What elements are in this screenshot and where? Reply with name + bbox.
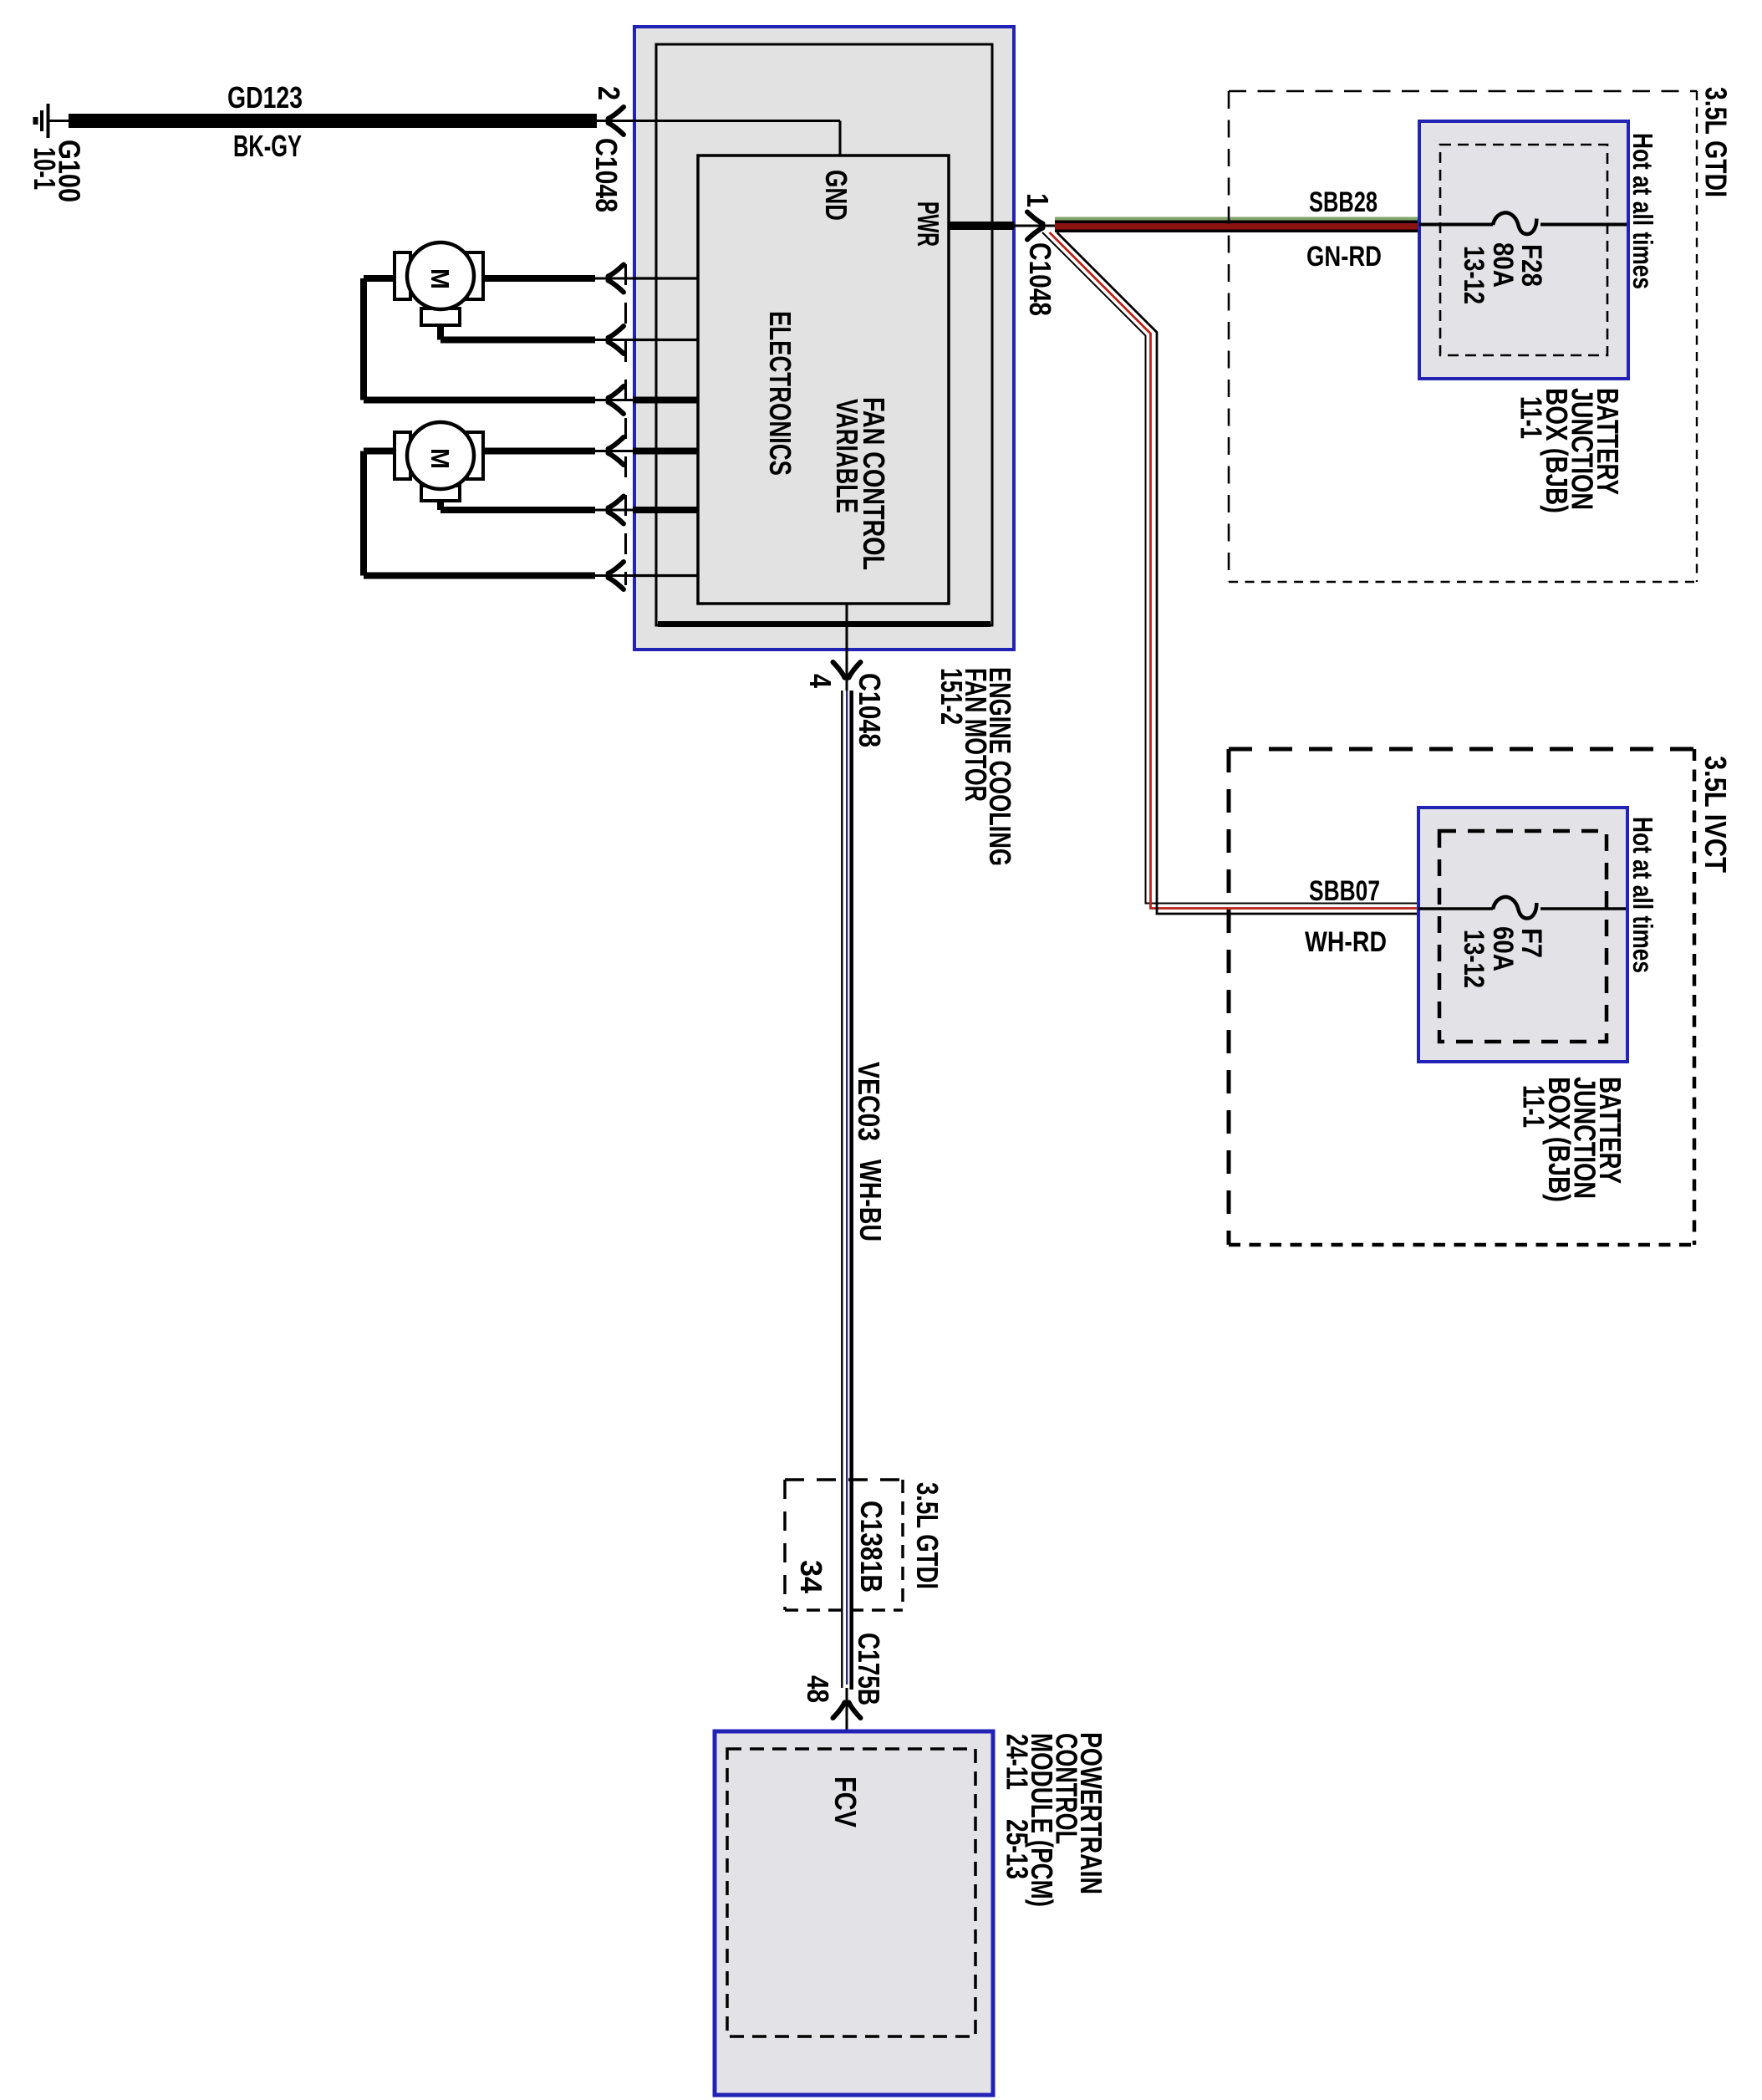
wire row 6 through connector <box>595 574 633 577</box>
label M motor1 <box>425 268 455 289</box>
label F7 <box>1515 928 1547 958</box>
wire row 5 through connector <box>595 509 633 512</box>
label 24-11 <box>1001 1734 1035 1790</box>
label GD123 <box>227 80 303 115</box>
label BATTERY IVCT <box>1593 1077 1627 1184</box>
wire pin1 stub <box>1014 225 1055 227</box>
label G100 <box>53 140 87 202</box>
label MODULE (PCM) <box>1025 1733 1059 1907</box>
svg-text:C1048: C1048 <box>853 673 887 747</box>
label 3.5L GTDI at C1381B <box>910 1482 945 1589</box>
connector C175B pin 48 arrow <box>833 1703 861 1719</box>
label FCV <box>828 1776 863 1827</box>
svg-text:GD123: GD123 <box>227 80 303 115</box>
svg-text:VEC03: VEC03 <box>852 1062 886 1141</box>
wire SBB28 GN-RD power feed <box>1055 217 1419 233</box>
svg-text:BK-GY: BK-GY <box>233 129 302 163</box>
label FAN CONTROL <box>857 397 891 570</box>
powertrain control module (PCM) box <box>715 1731 993 2095</box>
fan motor M2 circle <box>407 422 474 489</box>
label POWERTRAIN <box>1074 1732 1108 1894</box>
svg-text:C175B: C175B <box>852 1633 886 1705</box>
label 3.5L GTDI <box>1699 87 1734 197</box>
label FAN MOTOR <box>959 668 993 802</box>
svg-text:WH-BU: WH-BU <box>853 1160 888 1241</box>
svg-text:34: 34 <box>794 1560 828 1593</box>
label JUNCTION GTDI <box>1566 388 1600 510</box>
connector C1048 motor pin arrow row 1 <box>609 265 624 293</box>
fan motor M2 tabs <box>395 432 483 501</box>
label BOX (BJB) IVCT <box>1542 1077 1576 1202</box>
label M motor2 <box>425 448 455 469</box>
svg-text:ELECTRONICS: ELECTRONICS <box>763 311 797 476</box>
wire pin2 stub <box>595 120 633 122</box>
label WH-RD <box>1305 926 1387 958</box>
svg-text:Hot at all times: Hot at all times <box>1627 133 1658 289</box>
svg-text:F7: F7 <box>1515 928 1547 958</box>
label 60A <box>1487 926 1519 971</box>
svg-text:2: 2 <box>592 86 626 100</box>
svg-text:4: 4 <box>803 674 838 688</box>
wire pin 48 stub <box>846 1688 848 1747</box>
label VARIABLE <box>830 399 864 513</box>
label 11-1 GTDI <box>1515 396 1549 439</box>
svg-text:C1048: C1048 <box>1023 242 1057 316</box>
label 3.5L IVCT <box>1698 756 1733 873</box>
label 11-1 IVCT <box>1517 1085 1551 1128</box>
svg-text:SBB28: SBB28 <box>1309 186 1378 218</box>
fuse F28 symbol <box>1493 213 1536 235</box>
engine cooling fan motor block outer case <box>634 27 1014 650</box>
svg-text:F28: F28 <box>1515 244 1547 287</box>
wire SBB07 WH-RD branch <box>1042 232 1418 914</box>
label pin 48 <box>801 1675 835 1703</box>
svg-text:80A: 80A <box>1487 242 1519 288</box>
label BK-GY <box>233 129 302 163</box>
label ENGINE COOLING <box>983 667 1017 866</box>
svg-text:M: M <box>425 448 455 469</box>
label 80A <box>1487 242 1519 288</box>
svg-text:13-12: 13-12 <box>1458 246 1490 304</box>
fuse F7 symbol <box>1493 897 1536 919</box>
wire out of fuse F28 <box>1540 223 1627 227</box>
label C175B <box>852 1633 886 1705</box>
label 13-12 IVCT <box>1458 930 1490 988</box>
label Hot at all times IVCT <box>1627 817 1658 973</box>
ground G100 symbol <box>36 104 48 138</box>
wire row 4 through connector <box>595 450 633 452</box>
label WH-BU <box>853 1160 888 1241</box>
in-line connector C1381B dashed box <box>785 1480 903 1610</box>
svg-text:GN-RD: GN-RD <box>1306 241 1382 273</box>
fan motor M1 circle <box>407 242 474 309</box>
svg-text:48: 48 <box>801 1675 835 1703</box>
svg-text:11-1: 11-1 <box>1517 1085 1551 1128</box>
variable fan control electronics box <box>698 155 949 604</box>
connector C1048 motor pin arrow row 3 <box>609 386 624 414</box>
svg-text:25-13: 25-13 <box>1001 1819 1035 1879</box>
connector C1048 motor pin arrow row 6 <box>609 562 624 589</box>
wire stub row 3 inside block <box>633 397 698 404</box>
wire row 3 through connector <box>595 399 633 401</box>
label GN-RD <box>1306 241 1382 273</box>
connector C1048 motor pin arrow row 4 <box>609 437 624 465</box>
label PWR <box>911 201 945 247</box>
wire PWR inside block <box>949 222 1014 230</box>
wire GD123 BK-GY ground wire <box>48 120 598 122</box>
label C1048 pin1 <box>1023 242 1057 316</box>
label GND <box>819 170 853 221</box>
svg-text:3.5L IVCT: 3.5L IVCT <box>1698 756 1733 873</box>
label C1381B <box>854 1501 889 1593</box>
fan motor inner housing box <box>656 44 992 625</box>
svg-text:Hot at all times: Hot at all times <box>1627 817 1658 973</box>
label C1048 pin2 <box>589 138 624 212</box>
svg-text:3.5L GTDI: 3.5L GTDI <box>910 1482 945 1589</box>
label BOX (BJB) GTDI <box>1540 388 1574 513</box>
wire VEC03 WH-BU double line <box>842 691 851 1690</box>
svg-text:13-12: 13-12 <box>1458 930 1490 988</box>
label VEC03 <box>852 1062 886 1141</box>
wire stub row 6 inside block <box>633 574 698 577</box>
label JUNCTION IVCT <box>1568 1077 1602 1199</box>
label 151-2 <box>934 668 969 725</box>
connector C1048 pin 2 arrow <box>609 107 624 135</box>
wire GND internal <box>633 121 840 156</box>
wire stub row 2 inside block <box>633 339 698 341</box>
wire out of fuse F7 <box>1540 907 1626 910</box>
label pin 2 <box>592 86 626 100</box>
svg-text:3.5L GTDI: 3.5L GTDI <box>1699 87 1734 197</box>
svg-text:FCV: FCV <box>828 1776 863 1827</box>
wire row 1 through connector <box>595 278 633 280</box>
svg-text:WH-RD: WH-RD <box>1305 926 1387 958</box>
svg-text:C1048: C1048 <box>589 138 624 212</box>
dashed box 3.5L IVCT <box>1229 749 1694 1245</box>
svg-text:11-1: 11-1 <box>1515 396 1549 439</box>
connector C1048 motor pin arrow row 2 <box>609 326 624 354</box>
battery junction box (BJB) IVCT <box>1418 808 1627 1062</box>
label C1048 pin4 <box>853 673 887 747</box>
svg-text:VARIABLE: VARIABLE <box>830 399 864 513</box>
label F28 <box>1515 244 1547 287</box>
svg-text:SBB07: SBB07 <box>1309 875 1380 907</box>
svg-text:24-11: 24-11 <box>1001 1734 1035 1790</box>
connector C1048 motor pin arrow row 5 <box>609 497 624 524</box>
svg-text:PWR: PWR <box>911 201 945 247</box>
svg-text:1: 1 <box>1021 193 1055 207</box>
BJB GTDI inner dashed box <box>1440 145 1607 355</box>
wire stub row 4 inside block <box>633 448 698 455</box>
fan motor M2 wires <box>364 451 595 576</box>
wire stub row 1 inside block <box>633 277 698 279</box>
fan motor M1 tabs <box>395 252 483 325</box>
wire pin 4 stub <box>846 604 848 691</box>
label Hot at all times GTDI <box>1627 133 1658 289</box>
label CONTROL <box>1050 1733 1084 1844</box>
label pin 1 <box>1021 193 1055 207</box>
label SBB07 <box>1309 875 1380 907</box>
label 25-13 <box>1001 1819 1035 1879</box>
svg-text:151-2: 151-2 <box>934 668 969 725</box>
svg-text:10-1: 10-1 <box>28 147 62 190</box>
connector C1048 pin 4 arrow <box>833 662 861 678</box>
label 10-1 <box>28 147 62 190</box>
dashed box 3.5L GTDI <box>1229 91 1697 582</box>
dashed connector boundary line at motors <box>624 264 627 585</box>
connector C1048 pin 1 arrow <box>1027 212 1043 240</box>
PCM inner dashed box <box>727 1749 975 2036</box>
label pin 4 <box>803 674 838 688</box>
label BATTERY GTDI <box>1591 388 1625 495</box>
label ELECTRONICS <box>763 311 797 476</box>
label 13-12 GTDI <box>1458 246 1490 304</box>
wire into fuse F7 <box>1418 907 1493 910</box>
svg-text:60A: 60A <box>1487 926 1519 971</box>
label SBB28 <box>1309 186 1378 218</box>
svg-text:GND: GND <box>819 170 853 221</box>
svg-text:M: M <box>425 268 455 289</box>
wire row 2 through connector <box>595 339 633 341</box>
fan motor M1 wires <box>364 278 595 400</box>
svg-text:C1381B: C1381B <box>854 1501 889 1593</box>
battery junction box (BJB) GTDI <box>1419 121 1628 379</box>
BJB IVCT inner dashed box <box>1439 831 1607 1042</box>
label pin 34 <box>794 1560 828 1593</box>
wire into fuse F28 <box>1419 223 1493 227</box>
wire stub row 5 inside block <box>633 507 698 513</box>
